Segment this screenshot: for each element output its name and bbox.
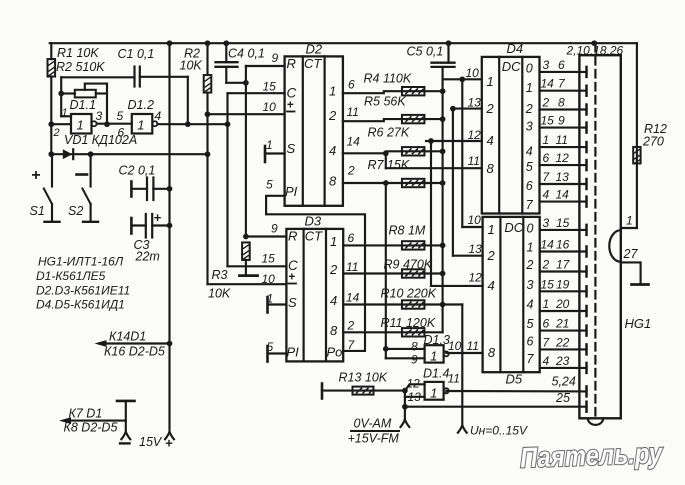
svg-text:+: + <box>31 167 40 184</box>
svg-text:0: 0 <box>527 222 534 236</box>
svg-text:4: 4 <box>543 354 550 368</box>
svg-text:9: 9 <box>411 353 418 367</box>
svg-text:CT: CT <box>304 56 322 71</box>
svg-text:2: 2 <box>486 101 495 116</box>
svg-text:6: 6 <box>558 58 565 72</box>
svg-text:2: 2 <box>526 258 534 272</box>
svg-text:1: 1 <box>62 107 68 119</box>
svg-text:+: + <box>154 210 162 225</box>
svg-text:R: R <box>288 229 297 244</box>
svg-text:13: 13 <box>556 170 570 184</box>
svg-text:8: 8 <box>329 174 337 189</box>
svg-text:PI: PI <box>285 184 298 199</box>
svg-text:2: 2 <box>328 108 337 123</box>
svg-text:К14D1: К14D1 <box>109 330 146 344</box>
svg-text:4: 4 <box>488 278 495 293</box>
svg-text:1: 1 <box>330 234 337 249</box>
svg-text:D1.4: D1.4 <box>423 367 449 381</box>
svg-text:12: 12 <box>468 128 482 142</box>
svg-text:S2: S2 <box>68 204 83 218</box>
svg-text:+: + <box>288 272 295 284</box>
svg-text:Паятель.ру: Паятель.ру <box>520 437 664 473</box>
svg-text:8: 8 <box>411 340 418 354</box>
svg-text:15: 15 <box>556 216 570 230</box>
svg-text:К7 D1: К7 D1 <box>69 407 103 421</box>
svg-text:DC: DC <box>502 59 521 74</box>
svg-text:5: 5 <box>527 317 534 331</box>
svg-text:4: 4 <box>487 133 494 148</box>
svg-text:R9 470K: R9 470K <box>384 258 433 272</box>
svg-text:6: 6 <box>527 335 534 349</box>
svg-text:DC: DC <box>504 220 523 235</box>
svg-text:8: 8 <box>330 323 338 338</box>
svg-text:15: 15 <box>262 252 276 266</box>
svg-text:4: 4 <box>543 188 550 202</box>
svg-text:1: 1 <box>626 214 633 228</box>
svg-text:23: 23 <box>555 354 570 368</box>
svg-text:7: 7 <box>526 198 534 212</box>
svg-text:D5: D5 <box>506 372 523 387</box>
svg-text:3: 3 <box>543 58 550 72</box>
svg-text:6: 6 <box>526 179 533 193</box>
svg-text:Po: Po <box>327 345 343 360</box>
svg-text:C5 0,1: C5 0,1 <box>407 45 444 59</box>
svg-text:2: 2 <box>347 164 355 178</box>
svg-text:+: + <box>165 436 173 451</box>
svg-text:R8 1М: R8 1М <box>389 224 426 238</box>
svg-text:D4: D4 <box>507 41 524 56</box>
svg-text:1: 1 <box>266 138 273 152</box>
svg-text:8: 8 <box>488 345 496 360</box>
svg-text:12: 12 <box>556 151 570 165</box>
svg-text:3: 3 <box>526 119 533 133</box>
svg-text:9: 9 <box>271 222 278 236</box>
svg-text:12: 12 <box>469 271 483 285</box>
svg-text:C4 0,1: C4 0,1 <box>228 47 265 61</box>
svg-text:CT: CT <box>305 229 323 244</box>
svg-text:VD1 КД102А: VD1 КД102А <box>64 133 137 147</box>
svg-text:3: 3 <box>543 216 550 230</box>
svg-text:R7 15K: R7 15K <box>368 158 410 172</box>
svg-text:11: 11 <box>467 339 479 353</box>
svg-text:R10 220K: R10 220K <box>381 287 437 301</box>
svg-text:4: 4 <box>527 298 534 312</box>
svg-text:7: 7 <box>527 352 535 366</box>
svg-text:R: R <box>287 56 296 71</box>
svg-text:5: 5 <box>266 178 273 192</box>
svg-text:16: 16 <box>556 238 570 252</box>
svg-text:6: 6 <box>348 231 355 245</box>
svg-text:2: 2 <box>329 262 338 277</box>
svg-text:15V: 15V <box>139 435 163 449</box>
svg-text:20: 20 <box>555 297 570 311</box>
svg-text:2: 2 <box>542 258 550 272</box>
svg-text:2: 2 <box>487 248 496 263</box>
svg-text:270: 270 <box>642 135 664 149</box>
svg-text:5: 5 <box>117 109 124 123</box>
svg-text:14: 14 <box>541 77 555 91</box>
svg-text:22m: 22m <box>135 250 160 264</box>
svg-text:1: 1 <box>543 133 550 147</box>
svg-text:11: 11 <box>347 105 359 119</box>
svg-text:R5 56K: R5 56K <box>364 95 406 109</box>
svg-text:21: 21 <box>555 317 569 331</box>
svg-text:1: 1 <box>527 241 534 255</box>
svg-text:4: 4 <box>329 143 336 158</box>
svg-text:Uн=0..15V: Uн=0..15V <box>470 424 528 438</box>
svg-text:D1.3: D1.3 <box>424 333 450 347</box>
svg-text:8: 8 <box>558 96 565 110</box>
svg-text:1: 1 <box>267 292 274 306</box>
svg-text:10: 10 <box>448 339 462 353</box>
svg-text:PI: PI <box>287 345 300 360</box>
svg-text:2: 2 <box>542 96 550 110</box>
svg-text:2: 2 <box>525 102 533 116</box>
svg-text:11: 11 <box>346 260 358 274</box>
svg-text:10: 10 <box>466 66 480 80</box>
svg-text:D2: D2 <box>306 42 323 57</box>
svg-text:10K: 10K <box>180 59 203 73</box>
svg-text:1: 1 <box>488 222 495 237</box>
svg-text:R3: R3 <box>212 268 228 282</box>
svg-text:+: + <box>287 100 294 112</box>
svg-text:1: 1 <box>430 349 437 364</box>
svg-text:10: 10 <box>263 100 277 114</box>
svg-text:4: 4 <box>155 109 162 123</box>
svg-text:9: 9 <box>558 114 565 128</box>
svg-text:3: 3 <box>527 278 534 292</box>
svg-text:C2 0,1: C2 0,1 <box>119 164 156 178</box>
svg-text:C: C <box>287 86 297 101</box>
svg-text:1: 1 <box>77 118 84 133</box>
svg-text:R1 10K: R1 10K <box>57 46 99 60</box>
svg-text:S: S <box>288 295 297 310</box>
svg-text:19: 19 <box>556 277 570 291</box>
svg-text:5: 5 <box>526 160 533 174</box>
svg-text:D1.1: D1.1 <box>70 98 96 112</box>
svg-text:S: S <box>287 141 296 156</box>
svg-text:15: 15 <box>541 114 555 128</box>
svg-text:8: 8 <box>487 161 495 176</box>
svg-text:22: 22 <box>555 335 570 349</box>
svg-text:6: 6 <box>543 317 550 331</box>
svg-text:4: 4 <box>330 293 337 308</box>
svg-text:13: 13 <box>468 96 482 110</box>
svg-text:9: 9 <box>272 51 279 65</box>
svg-text:R2 510K: R2 510K <box>56 60 105 74</box>
svg-text:11: 11 <box>468 154 480 168</box>
svg-text:10K: 10K <box>208 287 231 301</box>
svg-text:R6 27K: R6 27K <box>368 126 410 140</box>
svg-text:4: 4 <box>526 144 533 158</box>
svg-text:НG1-ИЛТ1-16Л: НG1-ИЛТ1-16Л <box>38 255 124 269</box>
svg-text:+15V-FM: +15V-FM <box>348 432 400 446</box>
svg-text:D2.D3-К561ИЕ11: D2.D3-К561ИЕ11 <box>36 283 130 297</box>
svg-text:15: 15 <box>541 277 555 291</box>
svg-text:S1: S1 <box>30 204 45 218</box>
svg-text:11: 11 <box>448 372 460 386</box>
svg-text:27: 27 <box>623 247 639 261</box>
svg-text:0V-AM: 0V-AM <box>354 417 392 431</box>
svg-text:2: 2 <box>347 319 355 333</box>
svg-text:10: 10 <box>468 213 482 227</box>
svg-text:0: 0 <box>526 62 533 76</box>
svg-text:D3: D3 <box>305 214 322 229</box>
svg-text:25: 25 <box>555 391 570 405</box>
svg-text:17: 17 <box>556 258 571 272</box>
svg-text:R11 120K: R11 120K <box>381 316 436 330</box>
svg-text:15: 15 <box>263 80 277 94</box>
svg-text:6: 6 <box>348 78 355 92</box>
svg-text:14: 14 <box>347 135 361 149</box>
svg-text:R13 10K: R13 10K <box>339 371 388 385</box>
svg-text:1: 1 <box>137 118 144 133</box>
svg-text:5: 5 <box>267 340 274 354</box>
svg-text:1: 1 <box>526 81 533 95</box>
svg-text:D1-К561ЛЕ5: D1-К561ЛЕ5 <box>36 269 106 283</box>
svg-text:HG1: HG1 <box>625 316 652 331</box>
svg-text:К8 D2-D5: К8 D2-D5 <box>64 421 118 435</box>
svg-text:1: 1 <box>329 84 336 99</box>
svg-text:11: 11 <box>556 133 568 147</box>
svg-text:14: 14 <box>541 238 555 252</box>
svg-text:1: 1 <box>543 297 550 311</box>
svg-text:2: 2 <box>53 127 60 139</box>
svg-text:1: 1 <box>487 74 494 89</box>
svg-text:D1.2: D1.2 <box>128 98 154 112</box>
svg-text:14: 14 <box>556 188 570 202</box>
svg-text:13: 13 <box>469 242 483 256</box>
svg-text:D4.D5-К561ИД1: D4.D5-К561ИД1 <box>36 297 125 311</box>
svg-text:К16 D2-D5: К16 D2-D5 <box>104 345 165 359</box>
svg-text:R4 110K: R4 110K <box>364 72 412 86</box>
svg-text:14: 14 <box>346 291 360 305</box>
svg-text:3: 3 <box>96 109 103 123</box>
svg-text:6: 6 <box>543 151 550 165</box>
svg-text:C1 0,1: C1 0,1 <box>118 47 155 61</box>
svg-text:2,10,18,26: 2,10,18,26 <box>566 44 624 58</box>
svg-text:10: 10 <box>262 272 276 286</box>
svg-text:1: 1 <box>430 385 437 400</box>
svg-text:5,24: 5,24 <box>552 375 576 389</box>
